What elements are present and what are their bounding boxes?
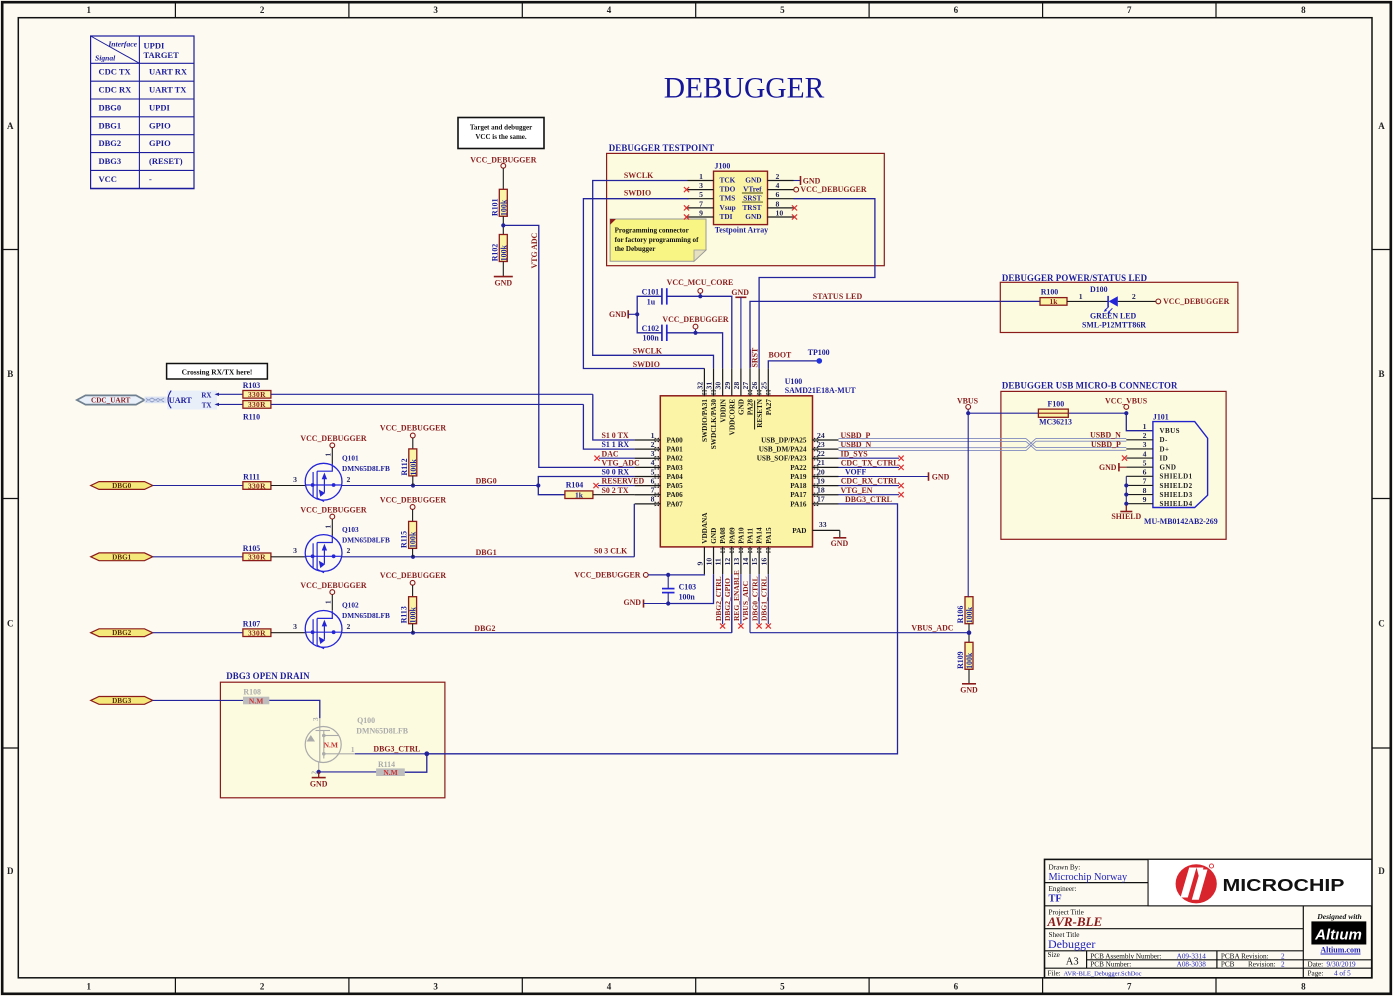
svg-text:DBG2_CTRL: DBG2_CTRL bbox=[714, 576, 723, 621]
port DBG0 bbox=[91, 482, 153, 490]
svg-text:Engineer:: Engineer: bbox=[1049, 885, 1077, 893]
power port VCC_DEBUGGER at MCU pin 9 bbox=[574, 570, 648, 579]
ground at mcu pad bbox=[831, 530, 849, 547]
svg-text:VBUS: VBUS bbox=[957, 396, 979, 405]
resistor R114 N.M (not mounted) bbox=[376, 760, 405, 777]
wire R101 to R102 junction bbox=[501, 216, 505, 234]
wire DBG1 port to R105 bbox=[153, 556, 243, 558]
svg-text:1k: 1k bbox=[1050, 297, 1059, 306]
mcu U100 top pins 32-25 bbox=[695, 368, 772, 449]
section box DEBUGGER POWER/STATUS LED bbox=[1000, 273, 1238, 333]
wire VCC_VBUS to J101 pin 1 bbox=[1126, 413, 1153, 431]
svg-text:GPIO: GPIO bbox=[149, 138, 171, 148]
svg-text:10: 10 bbox=[776, 209, 784, 218]
svg-text:2: 2 bbox=[260, 5, 265, 15]
svg-text:Designed with: Designed with bbox=[1316, 912, 1362, 921]
svg-text:4: 4 bbox=[607, 982, 612, 992]
svg-text:100k: 100k bbox=[499, 244, 508, 261]
wire net STATUS_LED (MCU pin27 to LED section) bbox=[750, 301, 1040, 368]
svg-text:VCC_DEBUGGER: VCC_DEBUGGER bbox=[300, 506, 367, 515]
svg-text:6: 6 bbox=[954, 982, 959, 992]
svg-text:3: 3 bbox=[433, 982, 438, 992]
svg-text:27: 27 bbox=[741, 382, 750, 390]
svg-text:B: B bbox=[7, 369, 13, 379]
svg-text:S1 1 RX: S1 1 RX bbox=[602, 440, 630, 449]
svg-text:100k: 100k bbox=[499, 199, 508, 216]
svg-text:VTG_EN: VTG_EN bbox=[841, 486, 873, 495]
svg-text:PA09: PA09 bbox=[728, 527, 736, 544]
pull-up R115 100k with VCC_DEBUGGER bbox=[380, 495, 447, 557]
svg-text:DMN65D8LFB: DMN65D8LFB bbox=[342, 535, 390, 544]
svg-text:CDC_RX_CTRL: CDC_RX_CTRL bbox=[841, 477, 899, 486]
svg-text:D100: D100 bbox=[1090, 285, 1108, 294]
svg-text:N.M: N.M bbox=[383, 768, 397, 777]
svg-text:19: 19 bbox=[817, 476, 825, 485]
resistor R105 330R bbox=[243, 544, 271, 562]
wire VTG_EN stub bbox=[839, 494, 900, 496]
svg-text:18: 18 bbox=[817, 486, 825, 495]
svg-text:PA10: PA10 bbox=[738, 527, 746, 544]
svg-text:R103: R103 bbox=[243, 381, 261, 390]
svg-text:1: 1 bbox=[325, 453, 333, 457]
note: Programming connector for factory programming of the Debugger bbox=[610, 219, 706, 261]
svg-text:8: 8 bbox=[1143, 486, 1147, 495]
svg-text:PA01: PA01 bbox=[667, 446, 684, 454]
svg-text:(RESET): (RESET) bbox=[149, 156, 183, 166]
resistor R108 N.M (not mounted) bbox=[243, 687, 269, 705]
ground for C101/C102 bbox=[609, 310, 628, 319]
svg-text:VCC_DEBUGGER: VCC_DEBUGGER bbox=[380, 495, 447, 504]
svg-text:Signal: Signal bbox=[95, 54, 116, 63]
svg-text:VOFF: VOFF bbox=[845, 468, 866, 477]
mcu U100 SAMD21E18A-MUT body bbox=[660, 377, 856, 547]
svg-text:VCC_DEBUGGER: VCC_DEBUGGER bbox=[380, 571, 447, 580]
svg-text:A3: A3 bbox=[1066, 956, 1079, 967]
svg-text:S1 0 TX: S1 0 TX bbox=[602, 431, 629, 440]
svg-text:Page:: Page: bbox=[1308, 969, 1324, 977]
transistor Q102 DMN65D8LFB bbox=[305, 611, 342, 648]
no-connect x at J101 pin 4 ID bbox=[1122, 455, 1127, 460]
svg-text:R113: R113 bbox=[400, 606, 409, 623]
svg-text:DBG3: DBG3 bbox=[99, 156, 122, 166]
svg-text:VCC is the same.: VCC is the same. bbox=[475, 133, 527, 141]
wire LED to VCC_DEBUGGER bbox=[1118, 300, 1156, 302]
svg-text:6: 6 bbox=[776, 190, 780, 199]
svg-text:SAMD21E18A-MUT: SAMD21E18A-MUT bbox=[785, 386, 857, 395]
svg-text:DAC: DAC bbox=[602, 449, 619, 458]
wire VDDANA rail (pin 9) bbox=[648, 573, 704, 577]
wire R114 loop to DBG3_CTRL junction bbox=[405, 754, 427, 772]
svg-text:8: 8 bbox=[651, 495, 655, 504]
svg-text:PA04: PA04 bbox=[667, 473, 684, 481]
svg-text:1u: 1u bbox=[647, 298, 656, 307]
svg-text:SML-P12MTT86R: SML-P12MTT86R bbox=[1082, 320, 1146, 329]
svg-text:Revision:: Revision: bbox=[1248, 960, 1276, 968]
port DBG2 bbox=[91, 629, 153, 637]
svg-text:DBG3 OPEN DRAIN: DBG3 OPEN DRAIN bbox=[226, 671, 310, 681]
svg-text:DMN65D8LFB: DMN65D8LFB bbox=[356, 726, 408, 735]
svg-text:8: 8 bbox=[776, 199, 780, 208]
ground below R109 bbox=[960, 669, 978, 694]
svg-text:1: 1 bbox=[699, 172, 703, 181]
svg-text:for factory programming of: for factory programming of bbox=[615, 236, 699, 244]
svg-text:4: 4 bbox=[776, 181, 780, 190]
svg-text:S0 0 RX: S0 0 RX bbox=[602, 468, 630, 477]
ground below R102 bbox=[494, 262, 513, 288]
svg-text:2: 2 bbox=[1143, 431, 1147, 440]
svg-text:CDC_UART: CDC_UART bbox=[91, 397, 130, 405]
resistor R111 330R bbox=[243, 473, 271, 491]
no-connect x on DAC bbox=[594, 456, 599, 461]
power port VCC_DEBUGGER (C102 rail) bbox=[662, 315, 729, 333]
capacitor C102 100n bbox=[642, 324, 667, 342]
svg-text:CDC TX: CDC TX bbox=[99, 67, 132, 77]
transistor Q100 DMN65D8LFB (not mounted) bbox=[305, 716, 409, 775]
svg-text:SWDCLK/PA30: SWDCLK/PA30 bbox=[710, 399, 718, 450]
svg-text:Testpoint Array: Testpoint Array bbox=[715, 226, 768, 235]
harness port CDC_UART bbox=[77, 395, 145, 404]
svg-text:SWDIO: SWDIO bbox=[633, 360, 660, 369]
svg-text:330R: 330R bbox=[248, 390, 266, 399]
mcu U100 pad pin 33 bbox=[792, 520, 840, 535]
power port VCC_DEBUGGER at LED bbox=[1156, 297, 1230, 306]
svg-text:S0 3 CLK: S0 3 CLK bbox=[594, 546, 628, 555]
svg-text:File:: File: bbox=[1048, 969, 1061, 977]
svg-text:BOOT: BOOT bbox=[769, 351, 793, 360]
svg-text:VCC_DEBUGGER: VCC_DEBUGGER bbox=[300, 581, 367, 590]
ground at J101 pin 5 bbox=[1099, 463, 1126, 472]
svg-text:R102: R102 bbox=[490, 244, 499, 262]
svg-text:2: 2 bbox=[260, 982, 265, 992]
wire R100 to LED bbox=[1067, 300, 1108, 302]
svg-text:100k: 100k bbox=[965, 652, 974, 669]
svg-text:ID: ID bbox=[1160, 454, 1169, 462]
svg-text:6: 6 bbox=[954, 5, 959, 15]
svg-text:VCC_DEBUGGER: VCC_DEBUGGER bbox=[800, 185, 867, 194]
svg-text:4: 4 bbox=[607, 5, 612, 15]
svg-text:GND: GND bbox=[310, 779, 328, 788]
svg-text:PA00: PA00 bbox=[667, 436, 684, 444]
resistor R107 330R bbox=[243, 620, 271, 638]
svg-text:DBG3_CTRL: DBG3_CTRL bbox=[373, 744, 420, 753]
svg-text:C102: C102 bbox=[642, 324, 660, 333]
svg-text:3: 3 bbox=[433, 5, 438, 15]
svg-text:D: D bbox=[1378, 866, 1385, 876]
svg-text:20: 20 bbox=[817, 467, 825, 476]
svg-text:12: 12 bbox=[723, 558, 732, 566]
svg-text:U100: U100 bbox=[785, 377, 803, 386]
svg-text:2: 2 bbox=[651, 440, 655, 449]
svg-text:1: 1 bbox=[325, 525, 333, 529]
wire S1_0_TX vertical into pin 1 bbox=[593, 394, 635, 440]
svg-text:1: 1 bbox=[325, 600, 333, 604]
interface/signal mapping table bbox=[91, 36, 194, 189]
svg-text:R111: R111 bbox=[243, 473, 260, 482]
svg-text:PCB: PCB bbox=[1221, 960, 1235, 968]
svg-text:4 of 5: 4 of 5 bbox=[1334, 969, 1351, 977]
svg-text:28: 28 bbox=[732, 382, 741, 390]
svg-text:100n: 100n bbox=[643, 334, 660, 343]
svg-text:DBG1_CTRL: DBG1_CTRL bbox=[759, 576, 768, 621]
svg-text:PCB Assembly Number:: PCB Assembly Number: bbox=[1090, 952, 1161, 960]
svg-text:GREEN LED: GREEN LED bbox=[1090, 311, 1137, 320]
svg-text:PA19: PA19 bbox=[790, 473, 807, 481]
svg-text:24: 24 bbox=[817, 431, 825, 440]
svg-text:VCC_VBUS: VCC_VBUS bbox=[1105, 396, 1148, 405]
svg-text:9: 9 bbox=[1143, 495, 1147, 504]
wire RX to R103 bbox=[219, 393, 243, 395]
svg-text:DEBUGGER: DEBUGGER bbox=[664, 73, 825, 105]
svg-text:100k: 100k bbox=[409, 531, 418, 548]
svg-text:R101: R101 bbox=[490, 198, 499, 216]
svg-text:DEBUGGER POWER/STATUS LED: DEBUGGER POWER/STATUS LED bbox=[1002, 273, 1147, 283]
svg-text:J101: J101 bbox=[1153, 412, 1169, 421]
svg-text:MC36213: MC36213 bbox=[1039, 417, 1072, 426]
wire net VCC_DEBUGGER (C102 to MCU pin30) bbox=[667, 331, 723, 369]
svg-text:VCC_DEBUGGER: VCC_DEBUGGER bbox=[380, 424, 447, 433]
svg-text:Drawn By:: Drawn By: bbox=[1049, 863, 1081, 871]
wires MCU pins 11,13,15,16 stubs with no-connect bbox=[720, 574, 771, 629]
svg-text:GND: GND bbox=[932, 472, 950, 481]
svg-text:DBG1: DBG1 bbox=[112, 553, 132, 561]
harness cable squiggle bbox=[145, 397, 167, 404]
svg-text:23: 23 bbox=[817, 440, 825, 449]
svg-text:PA11: PA11 bbox=[747, 527, 755, 543]
svg-text:S0 2 TX: S0 2 TX bbox=[602, 486, 629, 495]
svg-text:Q101: Q101 bbox=[342, 454, 359, 463]
svg-text:5: 5 bbox=[1143, 458, 1147, 467]
wire R107 to Q102 gate bbox=[271, 632, 305, 634]
svg-text:3: 3 bbox=[699, 181, 703, 190]
mcu U100 left pins 1-8 (PA00-PA07) bbox=[635, 431, 684, 508]
wire net SRST (J100.6 to MCU pin26) bbox=[759, 199, 875, 369]
power port VCC_DEBUGGER above Q103 bbox=[300, 506, 367, 536]
svg-text:DBG0: DBG0 bbox=[112, 482, 132, 490]
svg-text:DBG2: DBG2 bbox=[99, 138, 122, 148]
svg-text:MU-MB0142AB2-269: MU-MB0142AB2-269 bbox=[1144, 517, 1218, 526]
resistor R109 100k bbox=[956, 642, 974, 669]
svg-text:3: 3 bbox=[651, 449, 655, 458]
mcu U100 right pins 24-17 bbox=[757, 431, 839, 508]
svg-text:330R: 330R bbox=[248, 400, 266, 409]
svg-text:VCC_DEBUGGER: VCC_DEBUGGER bbox=[574, 570, 641, 579]
section box DBG3 OPEN DRAIN bbox=[220, 671, 445, 798]
svg-text:VBUS_ADC: VBUS_ADC bbox=[911, 624, 953, 633]
svg-text:TCK: TCK bbox=[720, 175, 736, 184]
wire DBG0 port to R111 bbox=[153, 485, 243, 487]
svg-text:GND: GND bbox=[609, 310, 627, 319]
svg-text:PA18: PA18 bbox=[790, 482, 807, 490]
svg-text:VCC_DEBUGGER: VCC_DEBUGGER bbox=[300, 434, 367, 443]
svg-text:DEBUGGER USB MICRO-B CONNECTOR: DEBUGGER USB MICRO-B CONNECTOR bbox=[1002, 381, 1178, 391]
svg-text:5: 5 bbox=[780, 5, 785, 15]
resistor R110 330R bbox=[243, 400, 271, 421]
svg-text:UART RX: UART RX bbox=[149, 67, 188, 77]
ground at VOFF bbox=[929, 472, 950, 481]
svg-text:the Debugger: the Debugger bbox=[615, 245, 656, 253]
svg-text:2: 2 bbox=[776, 172, 780, 181]
svg-text:R115: R115 bbox=[400, 531, 409, 548]
wire net BOOT (MCU pin25 to TP100) bbox=[768, 361, 819, 369]
transistor Q101 DMN65D8LFB bbox=[305, 463, 342, 500]
svg-text:PCBA Revision:: PCBA Revision: bbox=[1221, 952, 1269, 960]
svg-text:SHIELD3: SHIELD3 bbox=[1160, 491, 1193, 499]
svg-text:100k: 100k bbox=[965, 606, 974, 623]
svg-text:Q102: Q102 bbox=[342, 601, 359, 610]
svg-text:16: 16 bbox=[759, 558, 768, 566]
svg-text:15: 15 bbox=[750, 558, 759, 566]
svg-text:100n: 100n bbox=[679, 593, 696, 602]
altium box bbox=[1311, 912, 1366, 954]
svg-text:PA14: PA14 bbox=[756, 527, 764, 544]
wire RESERVED stub pin 6 bbox=[598, 485, 635, 487]
svg-text:4: 4 bbox=[651, 458, 655, 467]
svg-text:5: 5 bbox=[780, 982, 785, 992]
svg-text:SHIELD: SHIELD bbox=[1111, 512, 1141, 521]
ground for C103 bbox=[623, 598, 670, 608]
svg-text:TDI: TDI bbox=[720, 212, 733, 221]
power symbol SHIELD bbox=[1111, 505, 1141, 521]
svg-text:TARGET: TARGET bbox=[144, 50, 180, 60]
svg-text:SWDIO: SWDIO bbox=[624, 189, 651, 198]
section box DEBUGGER USB MICRO-B CONNECTOR bbox=[1001, 381, 1226, 540]
svg-text:C101: C101 bbox=[642, 288, 660, 297]
svg-text:26: 26 bbox=[750, 382, 759, 390]
svg-text:DBG0_CTRL: DBG0_CTRL bbox=[750, 576, 759, 621]
svg-text:C103: C103 bbox=[679, 582, 697, 591]
svg-text:VBUS: VBUS bbox=[1160, 427, 1180, 435]
svg-text:PA03: PA03 bbox=[667, 464, 684, 472]
svg-text:GND: GND bbox=[1099, 463, 1117, 472]
svg-text:4: 4 bbox=[1143, 449, 1147, 458]
svg-text:TRST: TRST bbox=[742, 203, 761, 212]
ground above MCU pin 28 bbox=[731, 288, 749, 369]
svg-text:PA17: PA17 bbox=[790, 491, 807, 499]
svg-text:RESETN: RESETN bbox=[756, 398, 764, 428]
svg-text:VCC: VCC bbox=[99, 174, 117, 184]
svg-text:3: 3 bbox=[1143, 440, 1147, 449]
wire net SWCLK (J100.1 to MCU pin31) bbox=[593, 181, 714, 369]
svg-text:Target and debugger: Target and debugger bbox=[470, 124, 532, 132]
connector J100 testpoint array bbox=[688, 162, 794, 235]
title block texts left bbox=[1047, 863, 1357, 977]
svg-text:DBG2_GPIO: DBG2_GPIO bbox=[723, 578, 732, 621]
power port VCC_VBUS bbox=[1105, 396, 1148, 409]
svg-text:TP100: TP100 bbox=[808, 348, 830, 357]
wire net S1_0_TX (R103 to MCU riser) bbox=[271, 393, 593, 395]
svg-text:Debugger: Debugger bbox=[1048, 937, 1095, 951]
pull-up R112 100k with VCC_DEBUGGER bbox=[380, 424, 447, 486]
svg-text:DBG2: DBG2 bbox=[112, 629, 132, 637]
wire Q100 source to R114 bbox=[317, 770, 377, 774]
wire net DBG0 (Q101 to MCU pins 5/7) bbox=[342, 477, 635, 495]
svg-text:C: C bbox=[7, 618, 14, 628]
no-connect x on J100 pins 3,7,9 bbox=[684, 187, 689, 220]
svg-text:PA02: PA02 bbox=[667, 455, 684, 463]
svg-text:A: A bbox=[7, 121, 14, 131]
svg-text:GND: GND bbox=[731, 288, 749, 297]
power port VCC_DEBUGGER (above R101) bbox=[470, 155, 537, 168]
svg-text:Microchip Norway: Microchip Norway bbox=[1049, 872, 1128, 883]
port DBG1 bbox=[91, 553, 153, 561]
svg-text:AVR-BLE: AVR-BLE bbox=[1047, 914, 1103, 929]
wire ID_SYS stub bbox=[839, 457, 900, 459]
svg-text:GND: GND bbox=[745, 175, 761, 184]
testpoint TP100 bbox=[808, 348, 830, 364]
svg-text:TF: TF bbox=[1049, 894, 1062, 905]
svg-text:Vsup: Vsup bbox=[720, 203, 736, 212]
svg-text:GND: GND bbox=[960, 686, 978, 695]
wire VOFF to ground bbox=[839, 476, 929, 478]
svg-text:SHIELD2: SHIELD2 bbox=[1160, 482, 1193, 490]
pull-up R113 100k with VCC_DEBUGGER bbox=[380, 571, 447, 633]
svg-text:330R: 330R bbox=[248, 481, 266, 490]
svg-text:R106: R106 bbox=[956, 606, 965, 624]
svg-text:R100: R100 bbox=[1041, 287, 1059, 296]
svg-text:33: 33 bbox=[819, 520, 827, 529]
svg-text:REG_ENABLE: REG_ENABLE bbox=[732, 570, 741, 621]
no-connect x VTG_EN bbox=[899, 492, 904, 497]
svg-text:11: 11 bbox=[714, 558, 723, 565]
svg-text:9: 9 bbox=[695, 562, 704, 566]
svg-text:2: 2 bbox=[347, 546, 351, 555]
svg-text:PA27: PA27 bbox=[765, 399, 773, 416]
svg-text:C: C bbox=[1378, 618, 1385, 628]
svg-text:R105: R105 bbox=[243, 544, 261, 553]
wire DAC stub pin 3 bbox=[599, 457, 635, 459]
svg-text:PA07: PA07 bbox=[667, 500, 684, 508]
wire net SWDIO (J100.5 to MCU pin32) bbox=[583, 199, 704, 369]
resistor R106 100k bbox=[956, 597, 974, 624]
svg-text:DBG3_CTRL: DBG3_CTRL bbox=[845, 495, 892, 504]
svg-text:SWCLK: SWCLK bbox=[624, 171, 654, 180]
wire net DBG2 (Q102 to MCU pin 12) bbox=[342, 574, 732, 635]
svg-text:32: 32 bbox=[695, 382, 704, 390]
svg-text:VDDCORE: VDDCORE bbox=[728, 399, 736, 436]
svg-text:GND: GND bbox=[803, 176, 821, 185]
svg-text:SHIELD4: SHIELD4 bbox=[1160, 500, 1193, 508]
svg-text:R107: R107 bbox=[243, 620, 261, 629]
svg-text:3: 3 bbox=[293, 622, 297, 631]
no-connect x CDC_RX_CTRL bbox=[899, 483, 904, 488]
section box DEBUGGER TESTPOINT bbox=[607, 143, 885, 266]
svg-text:GND: GND bbox=[738, 399, 746, 415]
svg-text:Programming connector: Programming connector bbox=[615, 226, 689, 234]
svg-text:SRST: SRST bbox=[743, 194, 761, 203]
svg-text:Interface: Interface bbox=[107, 40, 137, 49]
port DBG3 bbox=[91, 697, 153, 705]
harness connector UART bbox=[167, 391, 219, 410]
svg-text:3: 3 bbox=[293, 546, 297, 555]
svg-text:R112: R112 bbox=[400, 458, 409, 475]
svg-text:SHIELD1: SHIELD1 bbox=[1160, 473, 1193, 481]
capacitor C103 100n bbox=[662, 575, 696, 604]
svg-text:TX: TX bbox=[202, 401, 212, 409]
svg-text:USB_DM/PA24: USB_DM/PA24 bbox=[759, 446, 807, 454]
svg-text:DMN65D8LFB: DMN65D8LFB bbox=[342, 611, 390, 620]
svg-text:21: 21 bbox=[817, 458, 825, 467]
wire net USBD_P / USBD_N differential pair with crossover bbox=[839, 438, 1127, 450]
svg-text:R110: R110 bbox=[243, 413, 260, 422]
wire net DBG3_CTRL (long route to MCU pin 17) bbox=[427, 504, 898, 754]
svg-text:USBD_N: USBD_N bbox=[1090, 431, 1121, 440]
svg-text:Size: Size bbox=[1048, 951, 1060, 959]
svg-text:AVR-BLE_Debugger.SchDoc: AVR-BLE_Debugger.SchDoc bbox=[1064, 970, 1142, 977]
svg-text:5: 5 bbox=[699, 190, 703, 199]
svg-text:F100: F100 bbox=[1048, 400, 1065, 409]
svg-text:GND: GND bbox=[745, 212, 761, 221]
wire R105 to Q103 gate bbox=[271, 556, 305, 558]
